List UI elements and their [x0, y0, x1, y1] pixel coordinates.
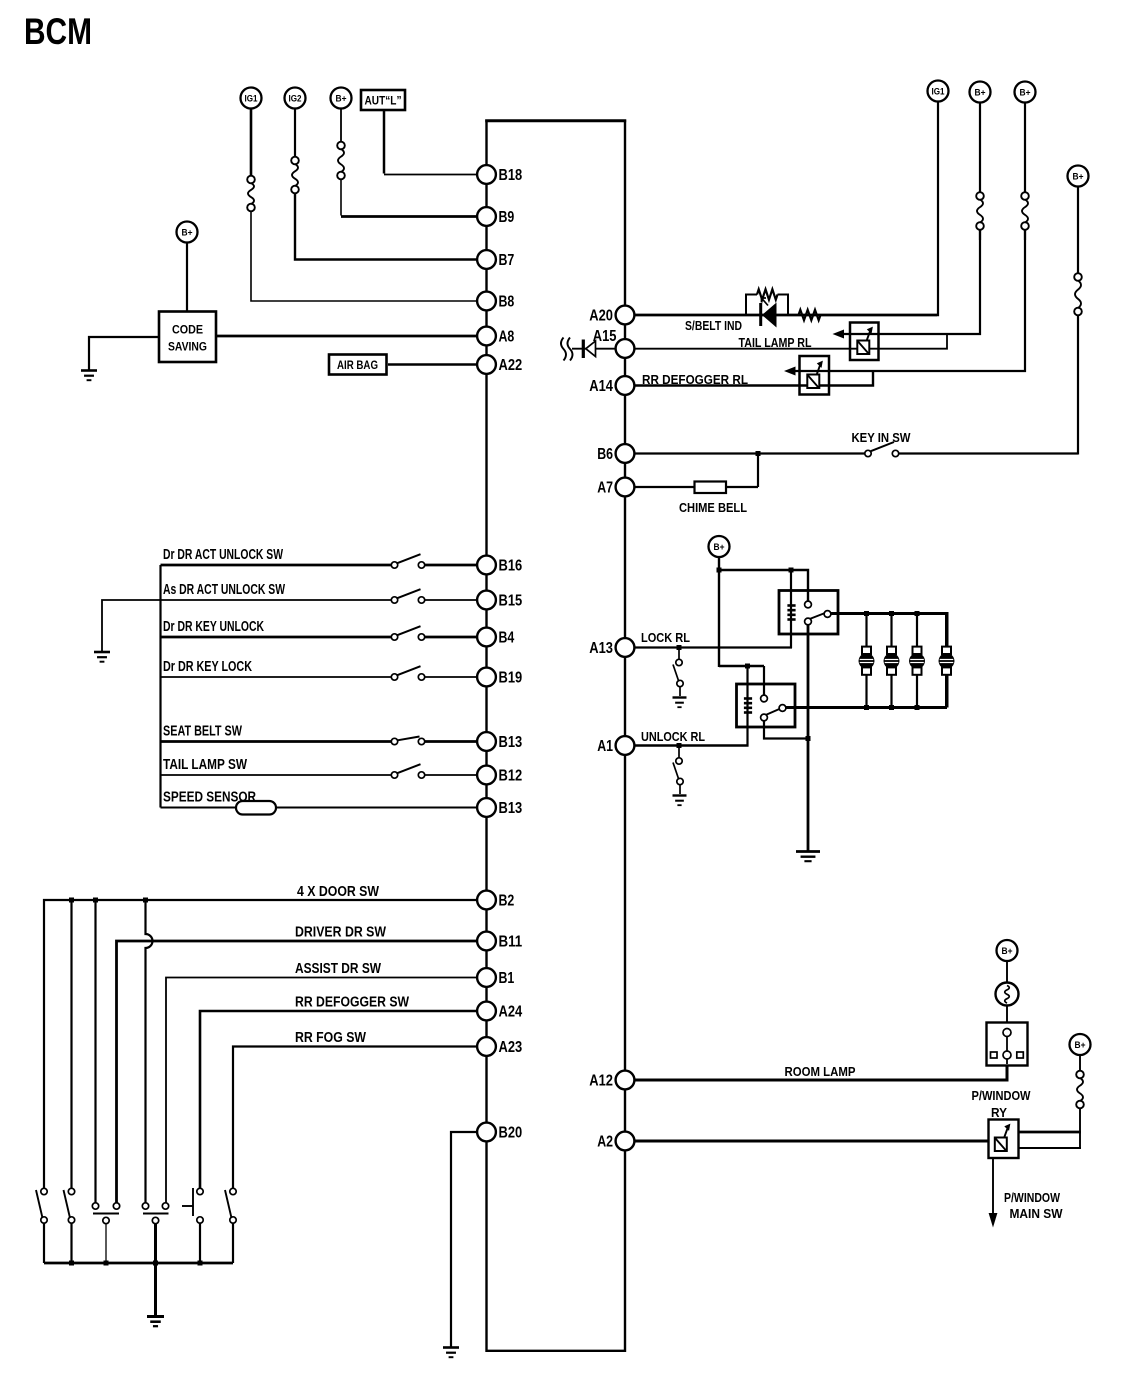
- contacts LOCK relay: [805, 601, 812, 608]
- wire IG1 feed to B8: [250, 109, 253, 177]
- svg-text:B+: B+: [1075, 1040, 1086, 1051]
- motor 2: [884, 647, 900, 675]
- svg-text:LOCK RL: LOCK RL: [641, 630, 690, 645]
- pin A1: [597, 736, 634, 755]
- relay TAIL LAMP RL: [850, 323, 879, 361]
- wire lock coil riser: [790, 570, 792, 648]
- svg-text:A2: A2: [597, 1133, 613, 1150]
- wire left bus vertical: [485, 120, 487, 1353]
- pin B4: [477, 628, 514, 647]
- pin B20: [477, 1123, 522, 1142]
- wire relay lower loop: [1019, 1147, 1082, 1149]
- wire unlock relay to motor bottom rail: [786, 706, 947, 709]
- box AUT"L": [361, 90, 405, 110]
- resistor loop S/BELT IND: [746, 295, 757, 316]
- power B+ room lamp: [997, 940, 1018, 961]
- wire IG1 right stem: [937, 102, 939, 317]
- power B+ tail lamp: [979, 103, 981, 193]
- switch driver door pair: [93, 1213, 119, 1215]
- svg-text:S/BELT IND: S/BELT IND: [685, 318, 742, 333]
- pin A23: [477, 1037, 522, 1056]
- wire pair common to main ground: [154, 1224, 157, 1316]
- switch B4: [391, 634, 397, 640]
- switch B12: [391, 772, 397, 778]
- wire B1 row: [166, 978, 478, 1205]
- wire left label-block vertical: [159, 565, 161, 808]
- wire code saving to ground: [89, 337, 159, 370]
- wire B+ feed to B9: [340, 109, 342, 143]
- pin A12: [589, 1071, 634, 1090]
- junction dots bottom rail: [69, 1261, 74, 1266]
- wire relay upper loop: [1019, 1131, 1082, 1134]
- wire A12 row: [634, 1064, 1007, 1080]
- pin B15: [477, 591, 522, 610]
- coil UNLOCK relay: [744, 697, 752, 700]
- pin B12: [477, 766, 522, 785]
- junction B6/A7: [756, 451, 761, 456]
- wire B6 row to key in sw: [635, 452, 865, 454]
- svg-text:ROOM LAMP: ROOM LAMP: [785, 1064, 856, 1079]
- switch KEY IN SW: [865, 450, 871, 456]
- power B+ door lock: [709, 536, 730, 557]
- svg-text:B20: B20: [499, 1124, 523, 1141]
- wire door sw drop 2: [70, 900, 72, 1190]
- junction dot A13 stub: [677, 645, 682, 650]
- resistor S/BELT IND series: [799, 310, 821, 320]
- wire A23 row: [233, 1047, 478, 1191]
- wire A7 row chime bell: [635, 486, 758, 488]
- wire B+ to rr defogger relay with arrow: [792, 230, 1025, 371]
- wire door sw drop 3: [94, 900, 96, 1204]
- power B+ rr defogger: [1024, 103, 1026, 193]
- svg-text:RR DEFOGGER SW: RR DEFOGGER SW: [295, 995, 409, 1011]
- ground lock/unlock: [796, 852, 820, 862]
- svg-text:IG1: IG1: [932, 86, 946, 97]
- motor 3: [909, 647, 925, 675]
- switch B15: [391, 597, 397, 603]
- svg-text:BCM: BCM: [24, 11, 92, 52]
- relay box UNLOCK: [737, 684, 796, 727]
- wire B+ stem: [718, 557, 720, 667]
- switch rr fog: [232, 1223, 234, 1263]
- wire B12 row: [161, 774, 392, 776]
- wire A1 row: [635, 744, 749, 746]
- power B+ top-left: [331, 88, 352, 109]
- motor 1: [859, 647, 875, 675]
- fuse on IG2 feed: [291, 157, 299, 194]
- fuse on IG1 feed: [247, 176, 255, 212]
- contacts UNLOCK relay: [761, 695, 768, 702]
- svg-text:B11: B11: [499, 933, 523, 950]
- junction dots on B2 row: [69, 898, 74, 903]
- svg-text:A8: A8: [499, 328, 515, 345]
- relay box LOCK: [779, 591, 838, 635]
- continuation squiggle A15: [561, 338, 566, 361]
- svg-text:RY: RY: [991, 1105, 1007, 1120]
- motor 1 wire: [865, 614, 867, 708]
- junction dot B+ lower branch: [745, 664, 750, 669]
- wire B4 row: [161, 636, 392, 639]
- svg-text:A1: A1: [597, 738, 613, 755]
- pin B13 speed: [477, 798, 522, 817]
- wire right bus vertical: [624, 120, 626, 1353]
- ground code saving: [81, 371, 97, 381]
- svg-text:B13: B13: [499, 734, 523, 751]
- svg-text:4 X DOOR SW: 4 X DOOR SW: [297, 884, 379, 900]
- wire B+ upper branch: [719, 570, 808, 605]
- pin B9: [477, 207, 514, 226]
- lamp bulb: [996, 983, 1019, 1006]
- junction dot A1 stub: [677, 743, 682, 748]
- box room lamp switch: [987, 1023, 1028, 1066]
- wire lock relay to motor top rail: [831, 614, 947, 708]
- svg-text:B+: B+: [1002, 946, 1013, 957]
- wire B+ lower branch: [719, 665, 764, 667]
- pin A13: [589, 638, 634, 657]
- svg-text:UNLOCK RL: UNLOCK RL: [641, 729, 705, 744]
- svg-text:CHIME BELL: CHIME BELL: [679, 500, 747, 515]
- relay box P/WINDOW RY: [989, 1120, 1019, 1159]
- wire B11 row: [117, 941, 479, 1204]
- wire unlock switch riser: [763, 666, 765, 699]
- power IG1: [241, 88, 262, 109]
- svg-text:A23: A23: [499, 1039, 523, 1056]
- ground switch bank: [147, 1317, 164, 1327]
- junction dot unlock-to-ground: [806, 736, 811, 741]
- svg-text:CODE: CODE: [172, 323, 203, 337]
- junction dots B+ upper branch: [717, 568, 722, 573]
- pin B16: [477, 556, 522, 575]
- ground B15: [94, 652, 110, 662]
- wire top horizontal bus: [485, 119, 626, 122]
- motor 2 wire: [890, 614, 892, 708]
- svg-text:B+: B+: [1020, 87, 1031, 98]
- motor 4 wire: [945, 614, 948, 708]
- power IG2: [285, 88, 306, 109]
- switch B19: [391, 674, 397, 680]
- pin B18: [477, 165, 522, 184]
- svg-text:DRIVER DR SW: DRIVER DR SW: [295, 925, 386, 941]
- pin A14: [589, 376, 634, 395]
- wire diode stub: [572, 348, 615, 350]
- svg-text:ASSIST DR SW: ASSIST DR SW: [295, 961, 381, 977]
- wire B2 row: [44, 900, 478, 1190]
- pin B7: [477, 250, 514, 269]
- svg-text:B13: B13: [499, 800, 523, 817]
- svg-text:SAVING: SAVING: [168, 340, 207, 354]
- LED S/BELT IND: [759, 303, 762, 326]
- box chime bell resistor: [695, 482, 727, 494]
- pin B11: [477, 932, 522, 951]
- coil LOCK relay: [787, 604, 795, 607]
- switch assist door pair: [143, 1213, 169, 1215]
- svg-text:B+: B+: [182, 227, 193, 238]
- box AIR BAG: [329, 355, 387, 375]
- power IG1 right: [928, 81, 949, 102]
- svg-text:RR DEFOGGER RL: RR DEFOGGER RL: [642, 372, 748, 387]
- switch B16: [391, 562, 397, 568]
- svg-text:Dr DR ACT UNLOCK SW: Dr DR ACT UNLOCK SW: [163, 547, 283, 563]
- svg-text:B19: B19: [499, 669, 523, 686]
- svg-text:B8: B8: [499, 293, 515, 310]
- svg-text:B12: B12: [499, 767, 523, 784]
- svg-text:B15: B15: [499, 592, 523, 609]
- ground A13 stub: [673, 698, 687, 708]
- svg-text:B2: B2: [499, 892, 515, 909]
- wire switch-bank bottom rail: [44, 1262, 233, 1265]
- pin B2: [477, 891, 514, 910]
- pin B1: [477, 968, 514, 987]
- wire B20 to ground: [451, 1132, 478, 1347]
- switch A1 stub to ground: [678, 746, 680, 759]
- svg-text:AIR BAG: AIR BAG: [337, 358, 378, 372]
- switch A13 stub to ground: [678, 648, 680, 661]
- svg-text:AUT“L”: AUT“L”: [365, 94, 402, 108]
- svg-text:MAIN SW: MAIN SW: [1010, 1206, 1064, 1221]
- switch rr defogger pushbutton: [199, 1223, 201, 1263]
- motor 4: [939, 647, 955, 675]
- wire A24 row: [200, 1011, 478, 1190]
- switch B13: [391, 738, 397, 744]
- wire SPEED SENSOR row: [161, 807, 479, 809]
- svg-text:KEY IN SW: KEY IN SW: [852, 430, 912, 445]
- svg-text:B+: B+: [336, 93, 347, 104]
- power B+ p/window: [1070, 1034, 1091, 1055]
- svg-text:B+: B+: [975, 87, 986, 98]
- svg-text:B+: B+: [1073, 171, 1084, 182]
- wire unlock coil riser: [746, 666, 748, 747]
- svg-text:B1: B1: [499, 970, 515, 987]
- ground A1 stub: [673, 796, 687, 806]
- wire A14 row: [635, 371, 873, 386]
- relay RR DEFOGGER RL: [800, 356, 830, 395]
- wire p/window main sw stem with arrow: [992, 1158, 994, 1216]
- svg-text:B7: B7: [499, 252, 515, 269]
- svg-text:A24: A24: [499, 1003, 523, 1020]
- svg-text:SEAT BELT SW: SEAT BELT SW: [163, 724, 242, 740]
- svg-text:B18: B18: [499, 167, 523, 184]
- svg-text:IG2: IG2: [289, 93, 302, 104]
- wire ground line from lock relay: [807, 625, 810, 851]
- svg-text:TAIL LAMP SW: TAIL LAMP SW: [163, 757, 247, 773]
- fuse p/window: [1076, 1071, 1084, 1109]
- svg-text:B6: B6: [597, 446, 613, 463]
- wire B19 row: [161, 676, 392, 678]
- svg-text:P/WINDOW: P/WINDOW: [1004, 1190, 1061, 1205]
- wire B15 row extension to ground: [102, 600, 161, 651]
- svg-text:IG1: IG1: [245, 93, 259, 104]
- wire A13 row: [635, 646, 792, 648]
- power B+ key in: [1077, 187, 1079, 274]
- pin B8: [477, 292, 514, 311]
- svg-text:Dr DR KEY UNLOCK: Dr DR KEY UNLOCK: [163, 619, 264, 635]
- svg-text:RR FOG SW: RR FOG SW: [295, 1030, 366, 1046]
- svg-text:A13: A13: [589, 640, 613, 657]
- pin A22: [477, 355, 522, 374]
- wire door sw drop 4 with hop: [146, 900, 153, 1204]
- wire unlock contact to ground line: [764, 721, 808, 739]
- pin A2: [597, 1132, 634, 1151]
- power B+ code-saving: [177, 222, 198, 243]
- switch door 1: [43, 1223, 45, 1263]
- wire B13 row: [161, 740, 392, 743]
- wire B+ to tail lamp relay with arrow: [840, 230, 980, 334]
- svg-text:Dr DR KEY LOCK: Dr DR KEY LOCK: [163, 659, 252, 675]
- svg-text:A15: A15: [593, 328, 617, 345]
- speed sensor capsule: [236, 801, 276, 815]
- wire code saving to A8: [216, 335, 478, 338]
- ground B20: [443, 1348, 459, 1358]
- box CODE SAVING: [159, 312, 216, 363]
- pin B19: [477, 668, 522, 687]
- pin A20: [589, 306, 634, 325]
- svg-text:As DR ACT UNLOCK SW: As DR ACT UNLOCK SW: [163, 582, 285, 598]
- svg-text:A7: A7: [597, 479, 613, 496]
- diode A15: [582, 340, 585, 359]
- svg-text:B16: B16: [499, 557, 523, 574]
- wire air bag to A22: [388, 363, 478, 366]
- wire B16 row: [161, 564, 392, 567]
- wire IG2 feed to B7: [294, 109, 296, 158]
- motor 3 wire: [916, 614, 918, 708]
- wire AUT L feed to B18: [383, 110, 386, 174]
- svg-text:TAIL LAMP RL: TAIL LAMP RL: [739, 335, 812, 350]
- svg-text:B9: B9: [499, 209, 515, 226]
- wire B+ to code saving box: [186, 243, 188, 313]
- svg-text:A22: A22: [499, 357, 523, 374]
- pin A7: [597, 478, 634, 497]
- wire B15 row: [162, 599, 392, 601]
- wire bottom horizontal bus: [487, 1350, 626, 1352]
- switch door 2: [70, 1223, 72, 1263]
- pin B13: [477, 732, 522, 751]
- wire A15 row: [635, 334, 947, 349]
- svg-text:P/WINDOW: P/WINDOW: [972, 1088, 1032, 1103]
- svg-text:A14: A14: [589, 378, 613, 395]
- pin A15: [593, 328, 635, 358]
- pin A24: [477, 1002, 522, 1021]
- junction dots motor rails: [864, 611, 869, 616]
- wire A20 row to IG1: [635, 314, 937, 317]
- svg-text:A20: A20: [589, 307, 613, 324]
- fuse on B+ feed: [337, 142, 345, 180]
- wire A2 row: [634, 1140, 989, 1143]
- pin A8: [477, 327, 514, 346]
- pin B6: [597, 444, 634, 463]
- svg-text:B4: B4: [499, 629, 515, 646]
- svg-text:A12: A12: [589, 1072, 613, 1089]
- svg-text:B+: B+: [714, 542, 725, 553]
